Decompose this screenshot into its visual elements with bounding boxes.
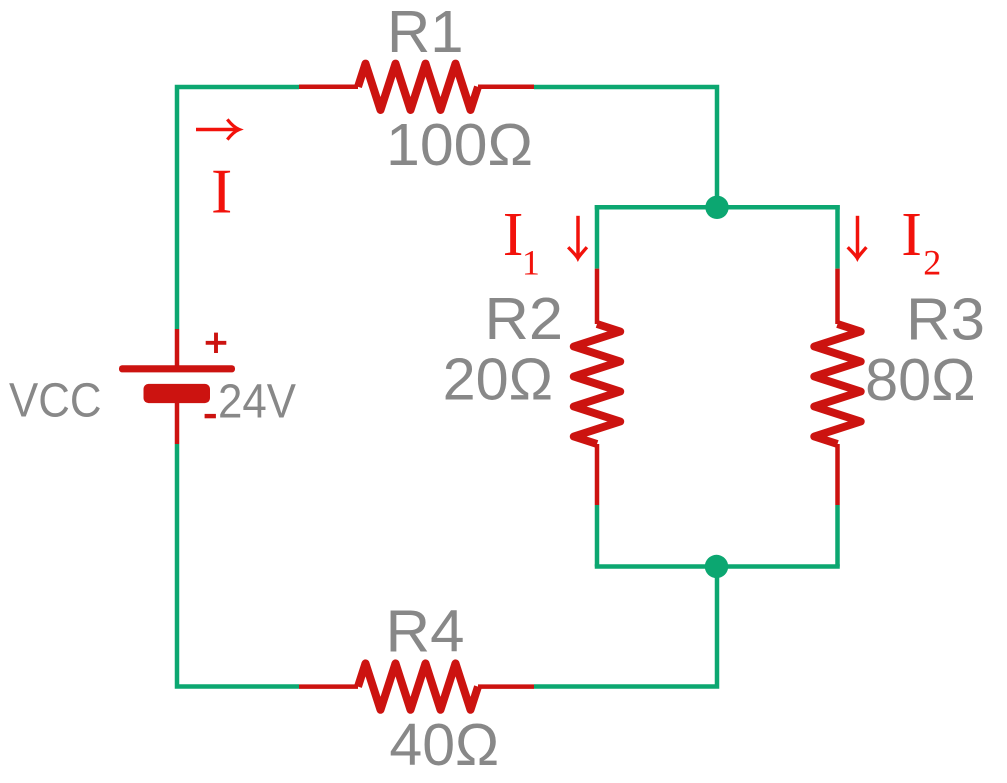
svg-text:1: 1 xyxy=(522,243,540,283)
svg-text:I: I xyxy=(503,201,524,269)
node junction dot bottom xyxy=(705,555,728,578)
wire xyxy=(534,87,717,207)
resistor R2 leads xyxy=(595,269,600,505)
wire xyxy=(835,205,840,269)
resistor R4 leads xyxy=(299,684,534,689)
resistor R3 zigzag xyxy=(814,324,860,444)
battery VCC top plate xyxy=(119,365,235,372)
wire top node bar xyxy=(595,205,840,210)
svg-text:I: I xyxy=(901,201,922,269)
battery VCC wire stubs xyxy=(175,329,180,444)
wire xyxy=(595,505,600,567)
svg-text:24V: 24V xyxy=(218,375,296,428)
resistor R1 zigzag xyxy=(358,64,478,110)
battery plus sign xyxy=(206,333,227,353)
svg-text:100Ω: 100Ω xyxy=(386,112,533,178)
wire xyxy=(177,444,299,687)
svg-text:40Ω: 40Ω xyxy=(389,712,499,778)
wire xyxy=(835,505,840,567)
arrow down (current I1) xyxy=(576,216,580,258)
arrow down (current I2) xyxy=(856,216,860,258)
resistor R2 zigzag xyxy=(574,324,620,444)
resistor R4 zigzag xyxy=(358,663,478,709)
svg-text:R1: R1 xyxy=(387,0,464,65)
svg-text:R4: R4 xyxy=(386,598,465,664)
wire bottom node bar xyxy=(595,564,840,569)
wire xyxy=(534,567,717,687)
wire xyxy=(595,205,600,269)
arrow right (current I) xyxy=(196,128,237,131)
resistor R3 leads xyxy=(835,269,840,505)
node junction dot top xyxy=(705,196,728,219)
wire xyxy=(177,87,299,329)
svg-text:VCC: VCC xyxy=(9,374,102,427)
svg-text:R3: R3 xyxy=(906,287,985,353)
resistor R1 leads xyxy=(299,85,534,90)
battery VCC bottom plate xyxy=(144,384,211,403)
svg-text:80Ω: 80Ω xyxy=(865,347,976,413)
svg-text:R2: R2 xyxy=(485,286,564,352)
svg-text:20Ω: 20Ω xyxy=(443,347,553,413)
svg-text:2: 2 xyxy=(923,243,941,283)
battery minus sign xyxy=(205,414,216,418)
svg-text:I: I xyxy=(211,156,232,227)
